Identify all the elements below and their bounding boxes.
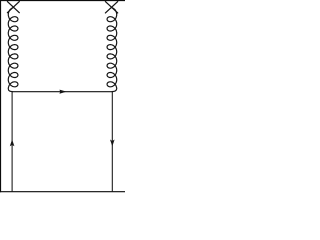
cross X2 (right external-field insertion)	[105, 2, 117, 13]
quark line horizontal segment	[12, 91, 112, 93]
cross X1 (left external-field insertion)	[7, 2, 19, 13]
quark line left vertical segment	[11, 92, 13, 192]
arrow on horizontal quark line (points right)	[60, 90, 67, 94]
arrow on right quark line (points down)	[110, 140, 115, 147]
gluon line G2 (right coil from cross X2 to right corner of quark line)	[107, 7, 117, 91]
gluon line G1 (left coil from cross X1 to left corner of quark line)	[8, 7, 18, 91]
arrow on left quark line (points up)	[10, 139, 15, 146]
quark line right vertical segment	[111, 92, 113, 192]
